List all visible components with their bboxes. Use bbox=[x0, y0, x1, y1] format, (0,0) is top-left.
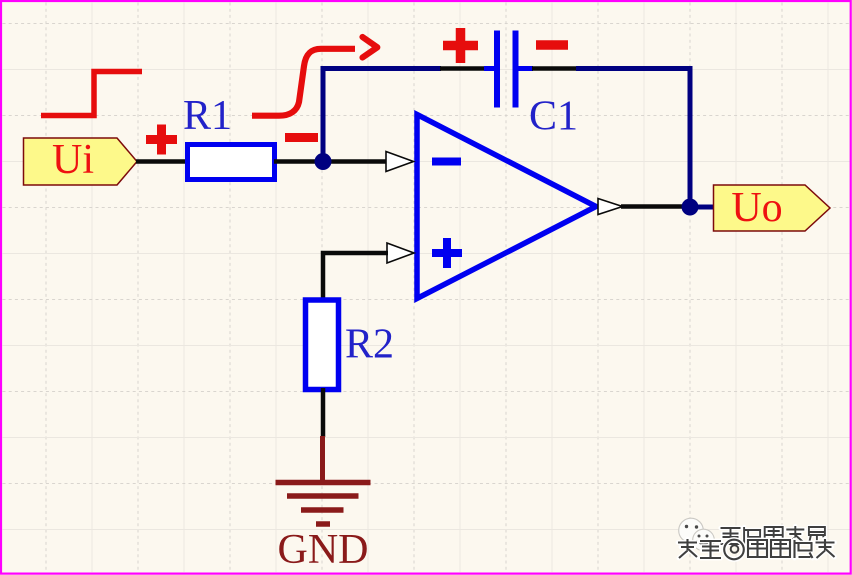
port Uo bbox=[714, 185, 831, 231]
op-amp inverting input marker bbox=[432, 158, 461, 166]
wire non-inverting input to R2 top bbox=[323, 253, 388, 300]
svg-text:GND: GND bbox=[278, 527, 369, 573]
pin symbol: inverting input bbox=[386, 152, 414, 172]
wire node B to port Uo bbox=[690, 205, 714, 210]
junction node A (inverting input) bbox=[315, 153, 332, 170]
annotation: plus at R1 input bbox=[146, 125, 177, 155]
resistor R2 bbox=[306, 300, 339, 390]
wire R1 to inverting input bbox=[274, 159, 388, 164]
svg-text:R1: R1 bbox=[183, 93, 232, 139]
annotation: minus at C1 right bbox=[536, 40, 568, 50]
annotation: input step waveform bbox=[41, 72, 142, 116]
wire capacitor C1 left lead bbox=[440, 66, 485, 71]
wire capacitor C1 right lead bbox=[532, 66, 577, 71]
svg-text:R2: R2 bbox=[345, 322, 394, 368]
wire op-amp output to node B bbox=[621, 204, 690, 209]
svg-text:Uo: Uo bbox=[731, 185, 782, 231]
wire feedback right (down to node B) bbox=[576, 69, 690, 208]
wire Ui to R1 bbox=[136, 159, 189, 164]
wire R2 to ground bbox=[321, 388, 326, 437]
svg-text:C1: C1 bbox=[529, 94, 578, 140]
capacitor C1 bbox=[484, 31, 533, 108]
op-amp U1 bbox=[417, 115, 596, 299]
ground GND bbox=[276, 436, 371, 524]
port Ui bbox=[24, 137, 138, 185]
op-amp non-inverting input marker bbox=[432, 238, 462, 268]
watermark logo and text bbox=[678, 518, 835, 559]
annotation: plus at C1 left bbox=[443, 28, 478, 63]
svg-text:Ui: Ui bbox=[52, 137, 94, 183]
pin symbol: output bbox=[598, 199, 623, 215]
junction node B (output) bbox=[682, 199, 699, 216]
pin symbol: non-inverting input bbox=[387, 243, 414, 263]
resistor R1 bbox=[188, 145, 275, 180]
annotation: charging-current curved arrow bbox=[252, 37, 377, 116]
wire feedback left (node A up and right) bbox=[323, 69, 441, 162]
annotation: minus at R1 output bbox=[285, 133, 318, 142]
